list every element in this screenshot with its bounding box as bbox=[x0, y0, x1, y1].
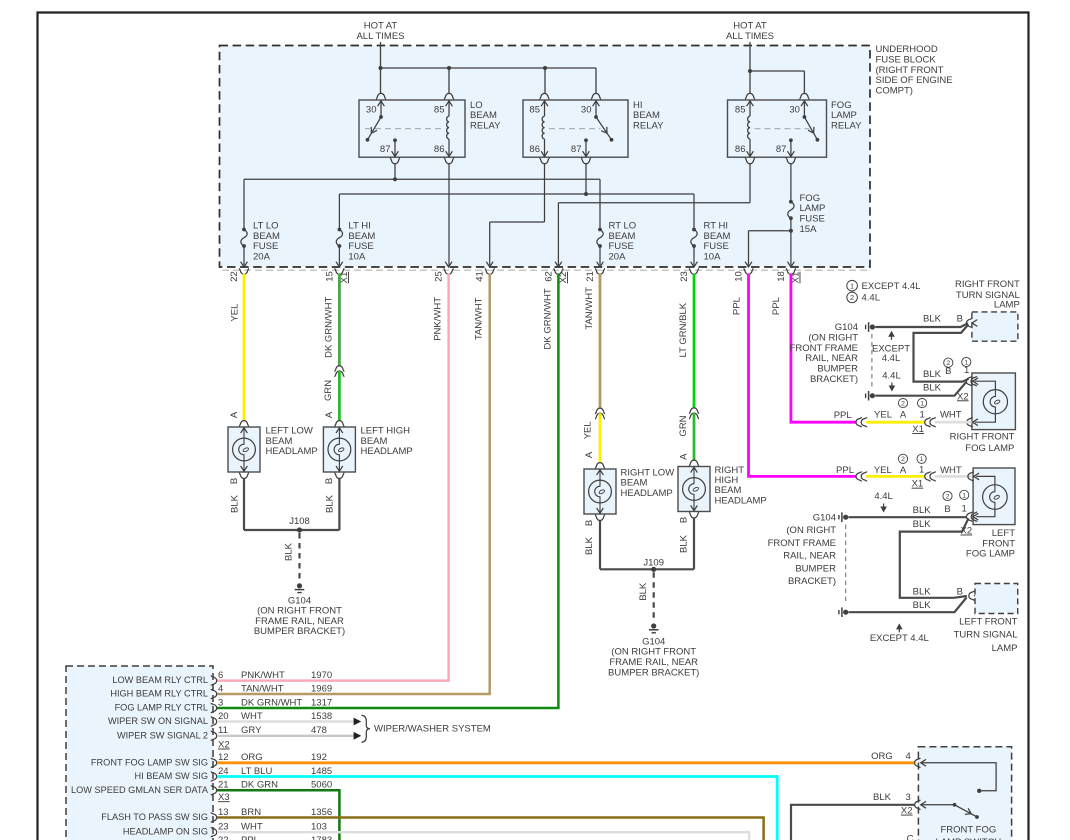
svg-text:85: 85 bbox=[434, 105, 445, 116]
svg-text:RAIL, NEAR: RAIL, NEAR bbox=[805, 353, 858, 364]
svg-text:1969: 1969 bbox=[311, 683, 332, 694]
svg-text:A: A bbox=[900, 410, 907, 421]
svg-text:(ON RIGHT: (ON RIGHT bbox=[808, 332, 858, 343]
svg-text:10: 10 bbox=[734, 271, 745, 282]
svg-text:1538: 1538 bbox=[311, 711, 332, 722]
svg-text:25: 25 bbox=[434, 271, 445, 282]
svg-text:10A: 10A bbox=[704, 252, 722, 263]
svg-text:TURN SIGNAL: TURN SIGNAL bbox=[954, 630, 1018, 641]
svg-text:BRACKET): BRACKET) bbox=[788, 576, 836, 587]
svg-text:PNK/WHT: PNK/WHT bbox=[241, 670, 285, 681]
svg-text:HEADLAMP ON SIG: HEADLAMP ON SIG bbox=[123, 827, 208, 837]
svg-text:30: 30 bbox=[581, 105, 592, 116]
svg-text:SIDE OF ENGINE: SIDE OF ENGINE bbox=[876, 75, 953, 86]
svg-text:GRN: GRN bbox=[678, 415, 689, 436]
svg-text:PNK/WHT: PNK/WHT bbox=[433, 297, 444, 341]
svg-text:YEL: YEL bbox=[582, 421, 593, 439]
svg-text:18: 18 bbox=[776, 271, 787, 282]
svg-text:ORG: ORG bbox=[871, 751, 893, 762]
svg-text:2: 2 bbox=[850, 293, 854, 302]
svg-text:BLK: BLK bbox=[638, 582, 649, 601]
svg-text:4.4L: 4.4L bbox=[882, 353, 901, 364]
svg-text:41: 41 bbox=[475, 271, 486, 282]
svg-text:HI BEAM SW SIG: HI BEAM SW SIG bbox=[134, 771, 208, 781]
svg-text:1: 1 bbox=[962, 492, 966, 499]
svg-text:FRONT FOG: FRONT FOG bbox=[941, 824, 997, 835]
svg-text:(ON RIGHT: (ON RIGHT bbox=[786, 525, 836, 536]
svg-text:EXCEPT 4.4L: EXCEPT 4.4L bbox=[870, 633, 929, 644]
svg-text:4.4L: 4.4L bbox=[862, 293, 881, 304]
svg-text:LAMP: LAMP bbox=[992, 643, 1018, 654]
svg-text:FRONT FOG LAMP SW SIG: FRONT FOG LAMP SW SIG bbox=[91, 757, 208, 767]
svg-text:B: B bbox=[944, 504, 950, 515]
svg-text:J108: J108 bbox=[289, 516, 310, 527]
svg-text:1: 1 bbox=[850, 282, 854, 291]
svg-text:23: 23 bbox=[218, 822, 229, 833]
svg-text:PPL: PPL bbox=[834, 410, 852, 421]
svg-text:1317: 1317 bbox=[311, 697, 332, 708]
svg-text:87: 87 bbox=[380, 144, 391, 155]
svg-text:2: 2 bbox=[901, 456, 905, 463]
svg-text:X1: X1 bbox=[912, 424, 924, 435]
svg-text:1: 1 bbox=[920, 401, 924, 408]
svg-text:B: B bbox=[945, 366, 951, 377]
svg-text:LEFT: LEFT bbox=[992, 528, 1015, 539]
svg-text:20A: 20A bbox=[253, 252, 271, 263]
svg-text:22: 22 bbox=[218, 835, 229, 840]
svg-text:EXCEPT 4.4L: EXCEPT 4.4L bbox=[862, 281, 921, 292]
svg-text:HOT AT: HOT AT bbox=[733, 21, 767, 32]
svg-text:1970: 1970 bbox=[311, 670, 332, 681]
svg-text:87: 87 bbox=[571, 144, 582, 155]
svg-text:FOG LAMP: FOG LAMP bbox=[966, 549, 1015, 560]
svg-text:UNDERHOOD: UNDERHOOD bbox=[876, 44, 938, 55]
svg-text:WIPER/WASHER SYSTEM: WIPER/WASHER SYSTEM bbox=[374, 724, 491, 735]
svg-text:X1: X1 bbox=[912, 479, 924, 490]
svg-text:BLK: BLK bbox=[913, 519, 932, 530]
svg-text:4.4L: 4.4L bbox=[882, 371, 901, 382]
svg-text:A: A bbox=[584, 451, 595, 458]
svg-text:HIGH BEAM RLY CTRL: HIGH BEAM RLY CTRL bbox=[110, 689, 208, 699]
svg-text:YEL: YEL bbox=[229, 304, 240, 322]
svg-text:LOW SPEED GMLAN SER DATA: LOW SPEED GMLAN SER DATA bbox=[71, 785, 209, 795]
svg-text:WHT: WHT bbox=[940, 410, 962, 421]
svg-text:1: 1 bbox=[920, 456, 924, 463]
svg-text:85: 85 bbox=[529, 105, 540, 116]
svg-text:86: 86 bbox=[434, 144, 445, 155]
svg-text:23: 23 bbox=[679, 271, 690, 282]
svg-text:RELAY: RELAY bbox=[831, 120, 862, 131]
svg-text:30: 30 bbox=[789, 105, 800, 116]
svg-text:RIGHT FRONT: RIGHT FRONT bbox=[955, 279, 1020, 290]
svg-text:15: 15 bbox=[324, 271, 335, 282]
svg-text:BUMPER BRACKET): BUMPER BRACKET) bbox=[608, 667, 699, 678]
svg-text:TAN/WHT: TAN/WHT bbox=[584, 287, 595, 330]
svg-text:RIGHT FRONT: RIGHT FRONT bbox=[950, 432, 1015, 443]
svg-text:HOT AT: HOT AT bbox=[364, 21, 398, 32]
svg-text:4: 4 bbox=[906, 751, 911, 762]
svg-text:DK GRN/WHT: DK GRN/WHT bbox=[241, 697, 302, 708]
svg-text:21: 21 bbox=[585, 271, 596, 282]
svg-text:GRN: GRN bbox=[323, 380, 334, 401]
svg-text:FOG LAMP RLY CTRL: FOG LAMP RLY CTRL bbox=[115, 703, 208, 713]
svg-text:PPL: PPL bbox=[771, 297, 782, 315]
svg-text:B: B bbox=[229, 478, 240, 484]
svg-text:B: B bbox=[957, 586, 963, 597]
svg-text:85: 85 bbox=[735, 105, 746, 116]
svg-text:X2: X2 bbox=[957, 391, 969, 402]
svg-text:A: A bbox=[324, 411, 335, 418]
svg-text:WHT: WHT bbox=[241, 822, 263, 833]
svg-text:10A: 10A bbox=[348, 252, 366, 263]
svg-text:1: 1 bbox=[919, 410, 924, 421]
svg-text:RELAY: RELAY bbox=[470, 120, 501, 131]
svg-text:1: 1 bbox=[919, 465, 924, 476]
svg-text:HEADLAMP: HEADLAMP bbox=[715, 495, 767, 506]
svg-text:4: 4 bbox=[218, 683, 223, 694]
svg-text:DK GRN/WHT: DK GRN/WHT bbox=[324, 296, 335, 357]
svg-text:4.4L: 4.4L bbox=[874, 491, 893, 502]
svg-text:ALL TIMES: ALL TIMES bbox=[726, 31, 774, 42]
svg-text:BLK: BLK bbox=[923, 382, 942, 393]
svg-text:BLK: BLK bbox=[584, 536, 595, 555]
svg-text:FLASH TO PASS SW SIG: FLASH TO PASS SW SIG bbox=[101, 812, 208, 822]
svg-text:G104: G104 bbox=[835, 322, 858, 333]
svg-text:LOW BEAM RLY CTRL: LOW BEAM RLY CTRL bbox=[112, 675, 208, 685]
svg-text:B: B bbox=[324, 478, 335, 484]
svg-text:6: 6 bbox=[218, 670, 223, 681]
svg-text:HEADLAMP: HEADLAMP bbox=[361, 446, 413, 457]
svg-text:3: 3 bbox=[906, 792, 911, 803]
svg-text:FRONT FRAME: FRONT FRAME bbox=[790, 343, 858, 354]
svg-text:62: 62 bbox=[543, 271, 554, 282]
svg-text:BLK: BLK bbox=[913, 586, 932, 597]
svg-text:PPL: PPL bbox=[241, 835, 259, 840]
svg-text:X3: X3 bbox=[218, 792, 230, 803]
svg-text:BLK: BLK bbox=[229, 494, 240, 513]
svg-text:BLK: BLK bbox=[913, 505, 932, 516]
svg-text:PPL: PPL bbox=[836, 465, 854, 476]
svg-text:COMPT): COMPT) bbox=[876, 86, 913, 97]
svg-text:1783: 1783 bbox=[311, 835, 332, 840]
svg-text:BLK: BLK bbox=[923, 314, 942, 325]
svg-text:BLK: BLK bbox=[913, 600, 932, 611]
svg-text:BRACKET): BRACKET) bbox=[810, 374, 858, 385]
svg-text:BUMPER: BUMPER bbox=[817, 364, 858, 375]
svg-text:15A: 15A bbox=[800, 224, 818, 235]
svg-text:RAIL, NEAR: RAIL, NEAR bbox=[783, 551, 836, 562]
svg-text:BUMPER: BUMPER bbox=[795, 563, 836, 574]
svg-text:1: 1 bbox=[962, 504, 967, 515]
svg-text:B: B bbox=[584, 520, 595, 526]
svg-text:1: 1 bbox=[964, 365, 969, 376]
svg-text:LT GRN/BLK: LT GRN/BLK bbox=[678, 302, 689, 357]
svg-text:A: A bbox=[900, 465, 907, 476]
svg-text:B: B bbox=[679, 517, 690, 523]
svg-text:30: 30 bbox=[366, 105, 377, 116]
svg-text:A: A bbox=[229, 411, 240, 418]
svg-text:11: 11 bbox=[218, 725, 228, 736]
svg-text:PPL: PPL bbox=[732, 297, 743, 315]
svg-text:LEFT FRONT: LEFT FRONT bbox=[959, 617, 1018, 628]
svg-text:WIPER SW ON SIGNAL: WIPER SW ON SIGNAL bbox=[108, 716, 208, 726]
svg-text:86: 86 bbox=[529, 144, 540, 155]
svg-text:C: C bbox=[907, 834, 914, 840]
svg-text:BLK: BLK bbox=[324, 494, 335, 513]
svg-text:X2: X2 bbox=[218, 740, 230, 751]
svg-text:BUMPER BRACKET): BUMPER BRACKET) bbox=[254, 626, 345, 637]
svg-text:A: A bbox=[679, 453, 690, 460]
svg-text:B: B bbox=[957, 314, 963, 325]
svg-text:GRY: GRY bbox=[241, 725, 262, 736]
svg-text:BLK: BLK bbox=[873, 792, 892, 803]
svg-text:FOG LAMP: FOG LAMP bbox=[965, 443, 1014, 454]
svg-text:BLK: BLK bbox=[679, 534, 690, 553]
svg-text:478: 478 bbox=[311, 725, 327, 736]
svg-text:20A: 20A bbox=[609, 252, 627, 263]
svg-text:X2: X2 bbox=[901, 806, 913, 817]
svg-text:WHT: WHT bbox=[940, 465, 962, 476]
svg-text:HEADLAMP: HEADLAMP bbox=[621, 488, 673, 499]
svg-text:FUSE BLOCK: FUSE BLOCK bbox=[876, 54, 937, 65]
svg-text:87: 87 bbox=[776, 144, 787, 155]
svg-text:TAN/WHT: TAN/WHT bbox=[241, 683, 284, 694]
svg-text:(RIGHT FRONT: (RIGHT FRONT bbox=[876, 65, 944, 76]
svg-text:WIPER SW SIGNAL 2: WIPER SW SIGNAL 2 bbox=[117, 730, 208, 740]
svg-text:22: 22 bbox=[229, 271, 240, 282]
svg-text:BLK: BLK bbox=[284, 542, 295, 561]
svg-text:86: 86 bbox=[735, 144, 746, 155]
svg-text:103: 103 bbox=[311, 822, 327, 833]
svg-text:LAMP: LAMP bbox=[994, 300, 1020, 311]
svg-text:3: 3 bbox=[218, 697, 223, 708]
svg-text:RELAY: RELAY bbox=[633, 120, 664, 131]
svg-text:DK GRN/WHT: DK GRN/WHT bbox=[542, 288, 553, 349]
svg-text:2: 2 bbox=[946, 493, 950, 500]
svg-text:YEL: YEL bbox=[874, 410, 892, 421]
svg-text:HEADLAMP: HEADLAMP bbox=[266, 446, 318, 457]
svg-text:ALL TIMES: ALL TIMES bbox=[356, 31, 404, 42]
svg-text:2: 2 bbox=[901, 401, 905, 408]
svg-text:YEL: YEL bbox=[874, 465, 892, 476]
svg-text:G104: G104 bbox=[813, 512, 836, 523]
svg-text:TAN/WHT: TAN/WHT bbox=[474, 297, 485, 340]
svg-text:BLK: BLK bbox=[923, 369, 942, 380]
svg-text:FRONT FRAME: FRONT FRAME bbox=[768, 538, 836, 549]
svg-text:20: 20 bbox=[218, 711, 229, 722]
svg-text:WHT: WHT bbox=[241, 711, 263, 722]
svg-text:J109: J109 bbox=[643, 557, 664, 568]
